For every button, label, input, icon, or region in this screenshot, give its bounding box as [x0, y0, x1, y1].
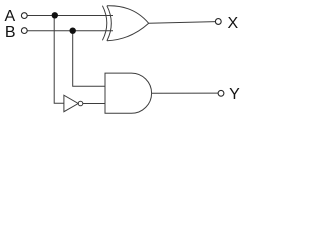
svg-text:Y: Y	[229, 86, 240, 103]
svg-text:B: B	[5, 24, 16, 41]
svg-text:A: A	[5, 8, 16, 25]
svg-text:X: X	[228, 15, 239, 32]
